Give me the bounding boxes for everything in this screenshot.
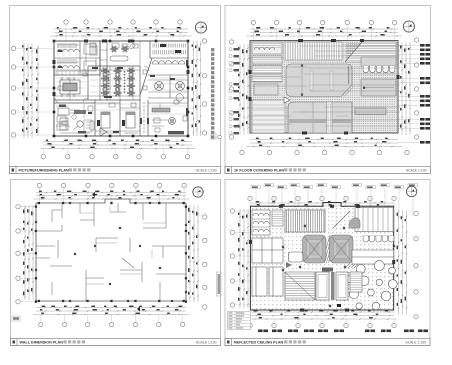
s3 left dimension cols <box>23 205 34 300</box>
s3 rev tag right <box>217 272 222 296</box>
svg-text:1F FLOOR COVERING PLAN: 1F FLOOR COVERING PLAN <box>234 169 284 173</box>
s4 legend table <box>228 312 251 330</box>
s3 corner tag left-bottom <box>12 316 20 321</box>
s4 bottom grid bubbles <box>248 319 396 328</box>
s1 toilet block top-left <box>54 41 100 75</box>
s2 bottom-right bar <box>355 108 386 115</box>
s1 meeting room left <box>60 78 80 97</box>
sheet4 frame <box>225 180 430 346</box>
s1 top grid bubbles <box>64 20 182 41</box>
s4 circle lights cluster <box>345 261 397 310</box>
s2 left bottom lines room <box>252 100 285 133</box>
s1 corridor dashes <box>143 102 145 134</box>
s4 north arrow compass <box>406 186 416 196</box>
s2 right gray room <box>361 79 396 96</box>
s2 top-right horiz hatch with diagonal <box>345 42 396 62</box>
s1 top dimension rows <box>50 27 192 37</box>
s1 guest beds <box>97 112 135 128</box>
s4 top small stripe block <box>272 210 283 226</box>
s1 faint hairlines <box>56 44 186 114</box>
s4 wall door marks <box>249 205 395 312</box>
sheet3 frame <box>11 180 221 346</box>
s2 right dimension cols <box>400 42 411 135</box>
s1 right grid bubbles <box>202 39 206 135</box>
s3 small wall ticks <box>35 202 187 302</box>
s2 north arrow compass <box>403 21 414 32</box>
s1 diagonal wall <box>140 58 152 95</box>
s1 left grid bubbles <box>11 46 54 137</box>
s4 top leader tags <box>251 184 418 236</box>
s4 diagonal hatch between coffers <box>322 235 337 263</box>
s2 stipple carpet field <box>250 41 398 133</box>
s4 diagonal corner element <box>349 218 360 228</box>
s1 detail mark right of bottom row <box>211 133 221 140</box>
s2 left dimension cols <box>238 44 249 135</box>
s1 left-bottom furniture <box>58 108 86 130</box>
s3 outer walls <box>36 199 186 301</box>
s1 title bar <box>10 167 221 174</box>
s4 bottom small mark <box>337 304 341 307</box>
s4 right grid bubbles <box>414 211 418 319</box>
s4 ceiling dot grid field <box>250 206 393 310</box>
s1 small furniture marks <box>58 43 187 132</box>
s4 left rounded panel <box>288 252 303 262</box>
s2 left top small rooms <box>252 42 282 54</box>
s2 right grid bubbles <box>414 38 418 139</box>
s1 banquet seating top-right <box>150 41 188 58</box>
s1 dining flower tables <box>101 68 135 97</box>
s1 bottom grid bubbles <box>41 149 190 159</box>
s1 top door marks <box>84 40 133 43</box>
s1 outer walls <box>54 41 188 136</box>
s1 extra partitions detail <box>54 41 188 133</box>
s4 top grid bubbles <box>248 196 396 206</box>
s2 left leader tags <box>229 48 239 135</box>
s3 north arrow compass <box>193 187 203 197</box>
s4 bottom-right striped block <box>350 272 362 292</box>
s1 round tables right rooms <box>148 75 188 98</box>
s3 bottom grid bubbles <box>39 315 185 327</box>
svg-text:SCALE 1:100: SCALE 1:100 <box>406 168 427 172</box>
s1 bottom rooms walls <box>54 100 148 136</box>
s1 left dimension cols <box>22 43 39 138</box>
svg-text:REFLECTED CEILING PLAN: REFLECTED CEILING PLAN <box>234 341 284 345</box>
s2 bottom-center rooms <box>288 102 352 133</box>
s3 left grid bubbles <box>16 205 36 304</box>
s1 dining room walls <box>54 66 140 100</box>
s4 top striped band <box>285 210 325 232</box>
s3 right grid bubbles <box>203 215 207 309</box>
svg-text:SCALE 1:100: SCALE 1:100 <box>405 340 426 344</box>
s1 door arcs <box>55 66 149 103</box>
s4 title bar <box>225 339 430 346</box>
s4 scallop row right <box>363 236 395 242</box>
s4 outer walls <box>250 203 393 311</box>
s3 top dimension rows <box>33 191 189 200</box>
s1 wall columns <box>53 40 190 138</box>
s2 corridor arrow <box>284 97 290 103</box>
s1 chair dot columns <box>108 71 126 93</box>
s1 right dimension cols <box>192 41 202 136</box>
s1 top-center furniture <box>90 43 135 61</box>
svg-text:SCALE 1:100: SCALE 1:100 <box>196 168 217 172</box>
s1 bottom-left room extra <box>56 104 92 132</box>
s3 wall column markers <box>35 202 187 303</box>
s1 right vertical note text column <box>211 48 214 139</box>
s3 bottom dimension rows <box>33 306 189 316</box>
s1 right-bottom room <box>152 94 184 135</box>
s4 left dimension cols <box>238 209 249 308</box>
s1 corridor vertical <box>100 41 107 100</box>
s4 bottom-center rooms <box>316 268 348 301</box>
s2 central hall rounded <box>286 64 354 97</box>
s1 entry triangle <box>100 128 107 136</box>
s4 top-right hatch block <box>355 208 394 232</box>
s3 right dimension cols <box>188 205 199 302</box>
svg-text:WALL DIMENSION PLAN: WALL DIMENSION PLAN <box>20 341 64 345</box>
s4 corridor arrow <box>286 262 292 268</box>
sheet1 frame <box>10 6 221 174</box>
s4 corridor diamonds <box>281 224 395 307</box>
s1 bottom-left extra furniture <box>57 110 94 130</box>
s2 bottom dimension rows <box>246 138 402 148</box>
s2 top band vertical hatch <box>284 42 342 60</box>
s1 north arrow compass <box>195 22 206 33</box>
s1 left wall marks <box>53 60 190 96</box>
s4 right dimension cols <box>397 210 408 315</box>
s3 interior partitions <box>36 203 186 301</box>
s2 left rooms hatched rows <box>252 56 282 95</box>
s1 dark accents <box>58 50 188 133</box>
s2 outer walls <box>250 41 398 133</box>
s3 interior dim stubs <box>80 206 166 284</box>
s1 left-middle room extra <box>56 71 86 91</box>
svg-text:SCALE 1:100: SCALE 1:100 <box>196 340 217 344</box>
s4 left rooms grid <box>252 238 283 296</box>
s1 bottom dimension rows <box>40 140 195 150</box>
s4 right room lines <box>352 250 394 264</box>
s4 left toilet fixtures <box>252 210 270 235</box>
s4 bottom leader tags <box>258 330 428 333</box>
s4 bottom dimension rows <box>247 310 397 320</box>
s2 top dimension rows <box>246 27 402 37</box>
s3 top arrow mark <box>92 192 95 197</box>
s2 right material tags <box>398 44 430 144</box>
sheet2 frame <box>225 6 431 174</box>
s2 bottom grid bubbles <box>240 147 409 155</box>
s2 top grid bubbles <box>251 20 396 40</box>
s4 top dimension rows <box>250 201 394 207</box>
s3 bottom arrow mark <box>137 307 140 312</box>
s2 leader lines <box>248 46 400 126</box>
s4 left grid bubbles <box>230 209 250 307</box>
s3 title bar <box>11 339 221 346</box>
svg-text:PICTUREFURNISHING PLAN: PICTUREFURNISHING PLAN <box>19 169 70 173</box>
s2 scallop row right <box>361 57 396 73</box>
s2 title bar <box>225 167 431 174</box>
s2 left grid bubbles <box>229 40 233 139</box>
s4 stairs bottom-left <box>285 272 315 300</box>
s2 wall door marks <box>249 39 400 135</box>
s1 scallop booths <box>152 61 185 64</box>
s3 top grid bubbles <box>37 183 186 203</box>
